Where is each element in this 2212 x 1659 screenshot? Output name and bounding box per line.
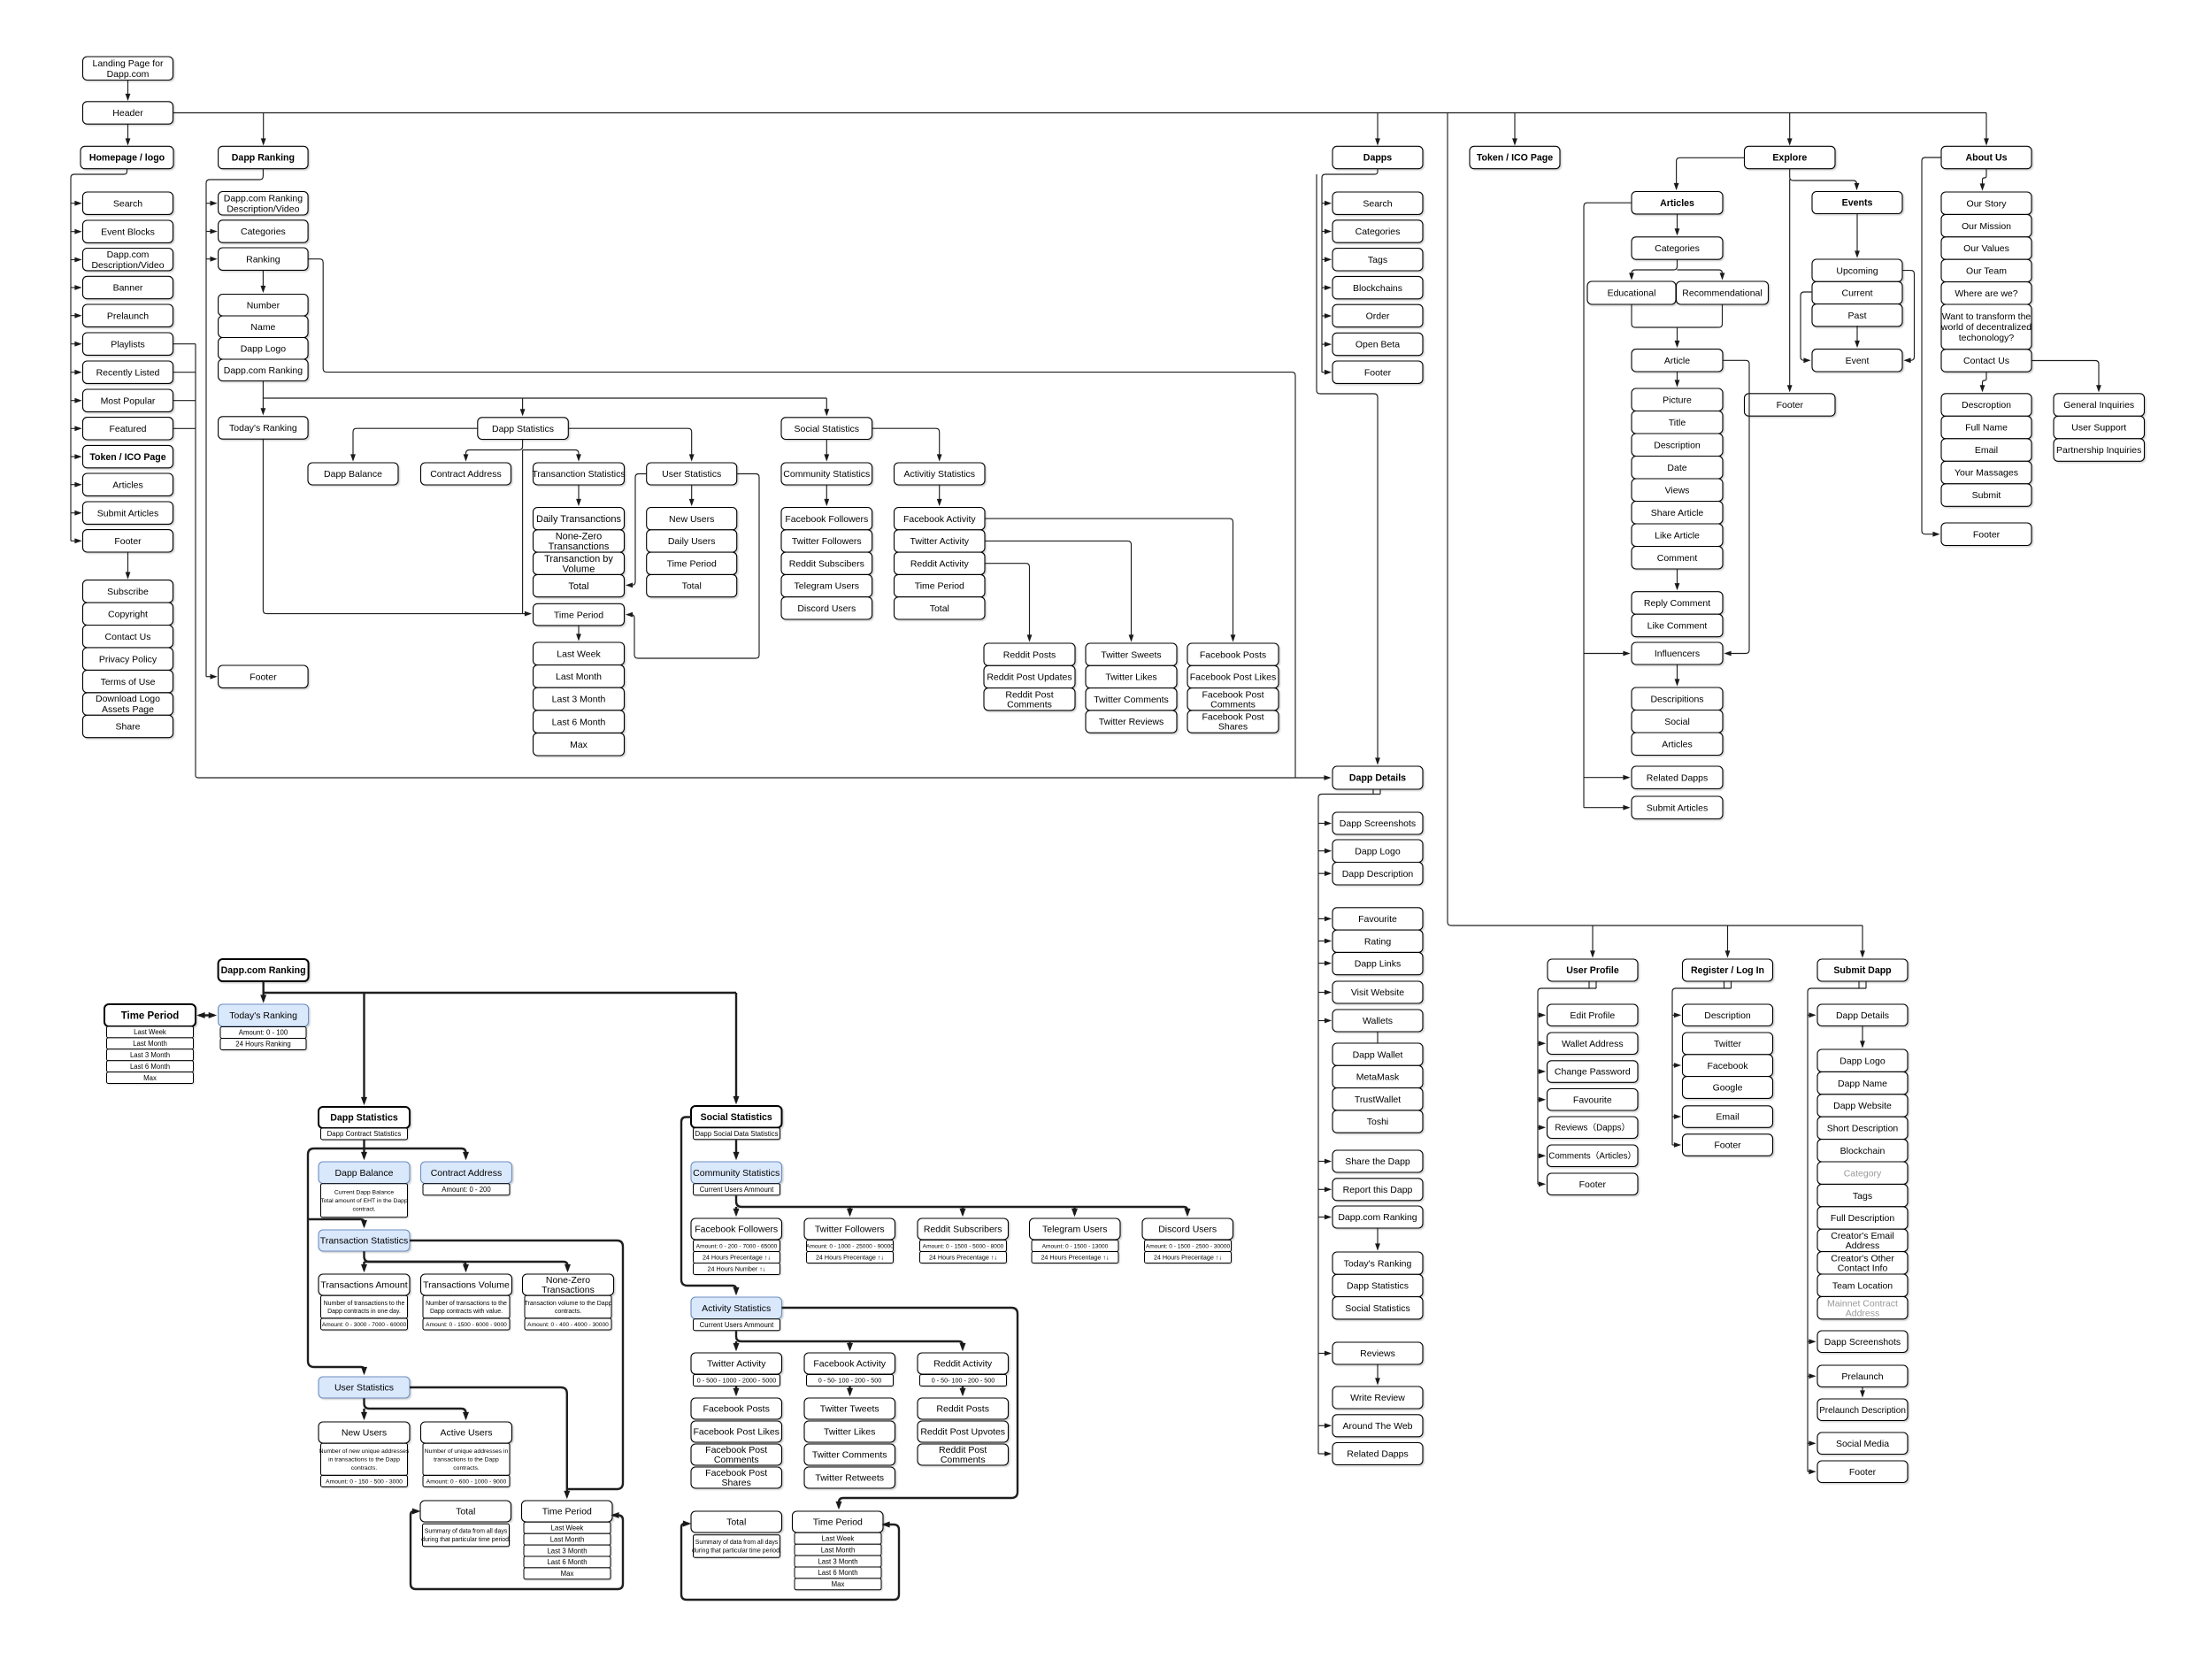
wire: community fan drop x960.5 [849,1207,850,1215]
node: Footer (user profile) [1548,1173,1639,1195]
svg-text:Social Statistics: Social Statistics [795,424,860,434]
node: Activity Statistics (detail) [691,1297,782,1319]
wire: article to picture [1677,372,1678,385]
svg-text:About Us: About Us [1965,153,2007,164]
strip: Amount: 0 - 400 - 4000 - 30000 [525,1318,611,1330]
svg-text:Rating: Rating [1364,936,1392,947]
wire: ranking child arrow y229.7 [206,203,216,204]
node: Recommendational [1677,281,1769,304]
node: Around The Web [1333,1415,1423,1437]
node: Time Period (detail left bottom) [522,1501,613,1522]
svg-text:Daily Users: Daily Users [668,536,716,547]
svg-text:Comments（Articles）: Comments（Articles） [1548,1151,1636,1162]
wire: spine to submit articles [1584,807,1629,809]
node: None-Zero Transanctions [534,530,625,552]
svg-text:Last Week: Last Week [822,1535,855,1543]
node: Download Logo Assets Page [83,693,173,715]
svg-text:Dapp Statistics: Dapp Statistics [492,424,554,434]
strip: 24 Hours Number ↑↓ (Facebook Followers) [694,1263,780,1275]
node: Activitiy Statistics [895,463,986,485]
node: Search [83,192,173,214]
wire: community to facebook followers [826,485,827,504]
wire: homepage spine [71,169,127,541]
svg-text:Dapp Website: Dapp Website [1833,1101,1892,1111]
strip: Max (left bottom) [524,1568,611,1579]
node: Last 3 Month [534,687,625,710]
node: Order (dapps) [1333,304,1423,326]
node: Date (article) [1632,457,1723,480]
wire: dapp details child arrow y1611.3 [1318,1425,1330,1426]
svg-text:Number of transactions to the: Number of transactions to the [324,1301,405,1307]
node: Most Popular [83,389,173,411]
node: Privacy Policy [83,648,173,670]
node: Creator's Other Contact Info (submit) [1817,1252,1908,1274]
wire: twitter activity drop [735,1386,737,1394]
svg-text:Dapp Statistics: Dapp Statistics [330,1113,398,1124]
wire: categories split left [1632,259,1678,278]
node: Facebook Followers [781,508,872,530]
node: Wallet Address (user profile) [1548,1033,1639,1055]
node: Reddit Posts (detail) [918,1398,1009,1419]
strip: Max (right bottom) [795,1578,881,1590]
svg-text:Wallets: Wallets [1363,1016,1393,1026]
node: Twitter Retweets (detail) [804,1467,895,1488]
wire: homepage child arrow y484.3 [71,427,81,429]
svg-text:Reddit Posts: Reddit Posts [936,1404,989,1415]
wire: landing to header [127,81,129,100]
wire: playlists stub [173,343,196,345]
svg-text:Footer: Footer [1973,529,2001,540]
node: TrustWallet [1333,1088,1423,1110]
svg-text:Twitter Comments: Twitter Comments [1094,695,1169,705]
svg-text:Transactions Volume: Transactions Volume [423,1280,510,1291]
node: Prelaunch [83,304,173,326]
svg-text:Current Users Ammount: Current Users Ammount [700,1321,774,1329]
node: Footer [83,530,173,552]
wire: upcoming loop [1902,271,1915,361]
wire: aboutus to our story [1983,169,1987,189]
wire: drop submit dapp [1862,926,1863,956]
svg-text:Blockchains: Blockchains [1353,283,1402,294]
node: Article [1632,349,1723,372]
node: Time Period (activity) [895,574,986,596]
node: Upcoming (events) [1812,259,1902,281]
wire: dapp stats detail to balance [363,1140,365,1157]
svg-text:24 Hours Precentage ↑↓: 24 Hours Precentage ↑↓ [816,1254,884,1262]
wire: dapp details child arrow y1063.5 [1318,941,1330,942]
svg-text:Today's Ranking: Today's Ranking [229,423,297,434]
svg-text:Last Month: Last Month [550,1535,585,1543]
node: Dapp.com Ranking Description/Video [219,192,309,216]
wire: categories split right [1678,270,1723,279]
svg-text:Amount: 0 - 200 - 7000 - 65000: Amount: 0 - 200 - 7000 - 65000 [696,1243,778,1249]
node: Dapp Balance (detail) [319,1162,410,1184]
node: Reviews [1333,1342,1423,1364]
wire: userstat left loop to total [627,474,647,586]
node: Share the Dapp [1333,1150,1423,1172]
svg-text:Amount: 0 - 150 - 500 - 3000: Amount: 0 - 150 - 500 - 3000 [326,1479,403,1485]
svg-text:Number of unique addresses in: Number of unique addresses in [425,1448,509,1455]
wire: homepage child arrow y293.5 [71,259,81,261]
strip: total desc left [423,1524,510,1547]
node: Reply Comment [1632,592,1723,615]
svg-text:Amount: 0 - 1500 - 6000 - 9000: Amount: 0 - 1500 - 6000 - 9000 [426,1322,507,1328]
wire: header main rail [173,112,1987,114]
svg-text:Social: Social [1664,717,1690,727]
node: Short Description (submit) [1817,1117,1908,1139]
wire: ranking child arrow y292.7 [206,258,216,260]
wire: reviews to write review [1377,1364,1379,1383]
svg-text:Articles: Articles [1660,198,1694,209]
wire: drop register [1727,926,1729,956]
wire: left U loop [411,1511,623,1589]
node: Category (submit) [1817,1162,1908,1184]
svg-text:Descripitions: Descripitions [1650,694,1703,704]
node: Dapp Details [1333,766,1423,789]
svg-text:Playlists: Playlists [111,339,145,349]
svg-text:Twitter Sweets: Twitter Sweets [1101,649,1161,660]
node: Today's Ranking (details) [1333,1252,1423,1274]
strip: Current Users Ammount [694,1184,780,1195]
wire: dapp stats rail left [308,1148,365,1373]
strip: Last 6 Month [107,1061,194,1072]
svg-text:Categories: Categories [1655,243,1700,254]
node: Dapp Logo (submit) [1817,1049,1908,1071]
wire: fan to new users [363,1409,365,1418]
node: Articles (influencers) [1632,733,1723,756]
node: Twitter Likes (detail) [804,1421,895,1442]
svg-text:Footer: Footer [1579,1179,1607,1190]
svg-text:Facebook Followers: Facebook Followers [695,1225,778,1235]
wire: userstat to new users [691,485,693,504]
svg-text:Twitter Comments: Twitter Comments [812,1450,887,1461]
wire: spine to influencers [1584,653,1629,655]
node: Prelaunch Description [1817,1399,1908,1421]
node: Open Beta (dapps) [1333,333,1423,355]
wire: user profile stub [1588,981,1590,988]
svg-text:Total: Total [930,603,949,614]
wire: drop to about us [1985,113,1987,144]
svg-text:Reddit Subscribers: Reddit Subscribers [924,1225,1002,1235]
wire: facebook activity to facebook posts [985,518,1233,640]
svg-text:Facebook: Facebook [1707,1061,1748,1071]
wire: fan to volume [365,1262,466,1271]
strip: 24 Hours Precentage ↑↓ (Facebook Followers) [694,1252,780,1263]
svg-text:Prelaunch Description: Prelaunch Description [1819,1406,1906,1416]
svg-text:Google: Google [1713,1083,1743,1094]
node: Discord Users [781,597,872,619]
node: Our Story [1941,192,2032,214]
node: Email (contact) [1941,439,2032,462]
node: Facebook Post Shares [1187,710,1279,733]
node: Daily Users (user stats) [647,530,737,552]
node: Header [83,102,173,124]
svg-text:Summary of data from all days: Summary of data from all days [425,1529,508,1535]
wire: user profile child arrow y1147.3 [1538,1014,1544,1016]
svg-text:Reddit Subscibers: Reddit Subscibers [789,558,864,569]
strip: Amount: 0 - 200 - 7000 - 65000 (Facebook Followers) [694,1240,780,1252]
strip: trans volume desc [423,1295,510,1318]
svg-text:Twitter Likes: Twitter Likes [824,1427,875,1438]
svg-text:Footer: Footer [114,536,142,547]
wire: dapp details child arrow y1121.5 [1318,992,1330,994]
node: Share Article (article) [1632,502,1723,525]
svg-text:Total: Total [682,581,702,592]
wire: dapps child arrow y261.5 [1322,231,1330,233]
node: Total (user stats) [647,574,737,596]
node: Favourite (details) [1333,908,1423,930]
strip: Last Month (left bottom) [524,1533,611,1545]
node: Your Massages (contact) [1941,461,2032,484]
strip: 24 Hours Ranking [220,1039,306,1050]
svg-text:Event Blocks: Event Blocks [101,227,155,237]
strip: Amount: 0 - 1500 - 13000 (Telegram Users) [1032,1240,1118,1252]
svg-text:Partnership Inquiries: Partnership Inquiries [2056,445,2141,456]
svg-text:Related Dapps: Related Dapps [1647,772,1708,783]
svg-text:Recommendational: Recommendational [1682,288,1762,299]
node: Last Week [534,642,625,665]
svg-text:Your Massages: Your Massages [1955,468,2018,479]
svg-text:Articles: Articles [1662,739,1692,749]
wire: community fan drop x1088 [962,1207,964,1215]
node: New Users (detail) [319,1422,410,1443]
svg-text:Comments: Comments [1007,699,1052,710]
svg-text:Around The Web: Around The Web [1343,1421,1413,1432]
node: New Users (user stats) [647,508,737,530]
node: Playlists [83,333,173,355]
svg-text:contract.: contract. [352,1207,375,1213]
node: Events [1812,192,1902,214]
svg-text:Share the Dapp: Share the Dapp [1345,1156,1410,1167]
node: Homepage / logo [81,146,173,168]
wire: dappstat to user statistics [568,428,691,459]
node: Dapp Logo (details) [1333,840,1423,863]
svg-text:Transactions Amount: Transactions Amount [320,1280,407,1291]
node: Categories [219,220,309,242]
node: Views (article) [1632,479,1723,502]
node: Name [219,316,309,338]
wire: ranking right to long rail [308,259,1295,778]
node: Dapp Balance [308,463,398,485]
svg-text:Team Location: Team Location [1832,1280,1893,1291]
wire: recently listed stub [173,372,196,373]
node: Submit (contact) [1941,484,2032,507]
svg-text:Reply Comment: Reply Comment [1644,598,1710,609]
node: Contract Address [421,463,511,485]
svg-text:Today's Ranking: Today's Ranking [229,1010,297,1021]
wire: past to event [1856,326,1858,346]
node: Dapp Statistics (details) [1333,1274,1423,1296]
node: Total [534,574,625,596]
svg-text:User Statistics: User Statistics [662,469,721,480]
node: Twitter Reviews [1086,710,1177,733]
wire: homepage child arrow y388.7 [71,343,81,345]
node: Facebook Posts [1187,643,1279,665]
wire: homepage child arrow y420.7 [71,372,81,373]
svg-text:Dapp Description: Dapp Description [1342,869,1414,879]
svg-text:Last Month: Last Month [821,1546,856,1554]
strip: 24 Hours Precentage ↑↓ (Twitter Followers) [807,1252,894,1263]
svg-text:Volume: Volume [563,564,595,574]
wire: dapp stats detail to contract [365,1148,466,1158]
wire: register stub2 [1731,981,1732,988]
svg-text:Reddit Post Upvotes: Reddit Post Upvotes [920,1427,1005,1438]
svg-text:Category: Category [1844,1168,1882,1179]
svg-text:transactions to the Dapp: transactions to the Dapp [434,1457,499,1463]
node: Title (article) [1632,411,1723,434]
wire: header to homepage [127,124,129,143]
svg-text:Article: Article [1664,356,1690,366]
svg-text:Contract Address: Contract Address [431,1168,503,1179]
node: Dapp.com Ranking (detail title) [219,959,309,981]
node: Influencers [1632,642,1723,664]
wire: dapp details child arrow y1529.5 [1318,1353,1330,1355]
svg-text:Telegram Users: Telegram Users [1042,1225,1108,1235]
svg-text:Submit Articles: Submit Articles [1647,803,1708,813]
node: About Us [1941,146,2032,168]
strip: Last 3 Month (left bottom) [524,1545,611,1556]
wire: drop user profile [1592,926,1594,956]
node: Dapps [1333,146,1423,168]
svg-text:TrustWallet: TrustWallet [1355,1094,1401,1105]
node: Dapp Ranking [219,146,309,168]
node: Subscribe [83,580,173,603]
svg-text:Terms of Use: Terms of Use [101,677,156,687]
svg-text:Like Comment: Like Comment [1647,621,1708,632]
node: Reddit Post Upvotes (detail) [918,1421,1009,1442]
svg-text:Contract Address: Contract Address [430,469,502,480]
svg-text:contracts.: contracts. [351,1465,378,1471]
svg-text:during that particular time pe: during that particular time period. [692,1548,781,1555]
svg-text:Amount: 0 - 1000 - 25000 - 900: Amount: 0 - 1000 - 25000 - 90000 [806,1243,894,1249]
svg-text:Dapp.com Ranking: Dapp.com Ranking [224,365,303,376]
wire: drop to explore [1789,113,1791,144]
strip: Amount: 0 - 3000 - 7000 - 60000 [321,1318,408,1330]
node: Current (events) [1812,281,1902,303]
wire: submit stub2 [1865,981,1867,988]
svg-text:Max: Max [143,1074,157,1082]
wire: dappstat to transanction [523,450,579,460]
svg-text:24 Hours Precentage ↑↓: 24 Hours Precentage ↑↓ [703,1254,771,1262]
wire: dapps wrap to dapp details [1317,174,1378,764]
svg-text:Comments: Comments [1210,699,1256,710]
svg-text:Current Users Ammount: Current Users Ammount [700,1186,774,1194]
svg-text:Upcoming: Upcoming [1836,265,1878,276]
wire: drop to dapp ranking [263,113,265,144]
svg-text:Social Statistics: Social Statistics [701,1112,772,1123]
node: Reddit Post Comments (detail) [918,1444,1009,1465]
svg-text:Amount: 0 - 400 - 4000 - 30000: Amount: 0 - 400 - 4000 - 30000 [527,1322,609,1328]
wire: submit spine [1808,988,1866,1471]
wire: contactus to descroption [1983,372,1987,390]
strip: Amount: 0 - 1500 - 5000 - 8000 (Reddit Subscribers) [920,1240,1007,1252]
node: Reddit Activity (detail) [918,1353,1009,1374]
wire: community fan [736,1195,1187,1214]
node: Event Blocks [83,220,173,242]
node: Facebook (register) [1683,1055,1773,1077]
wire: social to community [826,440,827,460]
strip: 24 Hours Precentage ↑↓ (Telegram Users) [1032,1252,1118,1263]
node: Telegram Users (detail) [1030,1218,1121,1240]
svg-text:Descroption: Descroption [1962,400,2011,411]
svg-text:0 - 50- 100 - 200 - 500: 0 - 50- 100 - 200 - 500 [818,1377,882,1385]
svg-text:Active Users: Active Users [441,1428,493,1439]
node: Change Password (user profile) [1548,1061,1639,1083]
node: Write Review [1333,1386,1423,1409]
wire: register stub [1724,981,1725,988]
svg-text:Last Month: Last Month [556,672,602,682]
svg-text:Current: Current [1841,288,1872,299]
svg-text:Register / Log In: Register / Log In [1691,965,1764,976]
wire: user stats right to time period [410,1387,567,1497]
svg-text:Toshi: Toshi [1367,1117,1389,1127]
svg-text:Description/Video: Description/Video [91,260,164,271]
svg-text:Our Mission: Our Mission [1962,221,2011,232]
node: Explore [1745,146,1836,168]
strip: Last 6 Month (left bottom) [524,1556,611,1568]
svg-text:Total amount of EHT in the Dap: Total amount of EHT in the Dapp [320,1198,408,1204]
svg-text:None-Zero: None-Zero [556,532,603,542]
node: Dapp.com Ranking (details) [1333,1206,1423,1228]
node: Partnership Inquiries [2054,439,2145,462]
svg-text:Dapp.com: Dapp.com [107,250,150,260]
svg-text:Download Logo: Download Logo [96,694,160,704]
svg-text:Time Period: Time Period [554,610,603,620]
svg-text:Most Popular: Most Popular [101,396,156,406]
svg-text:Facebook Posts: Facebook Posts [703,1404,770,1415]
wire: dapp details child arrow y1643 [1318,1453,1330,1455]
node: Dapp Screenshots [1333,812,1423,834]
node: Twitter Followers [781,530,872,552]
wire: homepage child arrow y356.7 [71,315,81,317]
wire: drop to social statistics [826,398,827,414]
strip: Last 3 Month [107,1049,194,1061]
node: Dapp Statistics (detail) [319,1107,410,1128]
svg-text:Reddit Post Updates: Reddit Post Updates [987,672,1071,683]
svg-text:Amount: 0 - 1500 - 13000: Amount: 0 - 1500 - 13000 [1042,1243,1109,1249]
node: Reddit Activity (activity) [895,552,986,574]
node: Dapp Wallet [1333,1043,1423,1065]
strip: Current Users Ammount (activity) [694,1319,780,1331]
wire: user profile child arrow y1306.3 [1538,1155,1544,1156]
node: Articles (explore) [1632,192,1723,214]
node: Transactions Amount [319,1274,410,1295]
wire: dapps child arrow y357 [1322,315,1330,317]
node: Dapp.com Description/Video [83,249,173,271]
svg-text:Transanction by: Transanction by [544,554,613,565]
svg-text:Total: Total [568,581,588,592]
wire: social detail to community [735,1140,737,1157]
wire: featured stub [173,427,196,429]
node: Last Month [534,665,625,688]
svg-text:Dapp.com Ranking: Dapp.com Ranking [221,965,306,976]
node: Prelaunch (submit) [1817,1365,1908,1387]
node: Facebook Post Likes [1187,665,1279,687]
svg-text:Reddit Activity: Reddit Activity [910,558,970,569]
svg-text:Activitiy Statistics: Activitiy Statistics [904,469,976,480]
wire: rail to transaction stats [308,1219,365,1226]
wire: right U loop [681,1524,899,1600]
wire: dappcomranking to todays [262,381,264,414]
wire: timeperiod todays double arrow [199,1014,214,1016]
strip: Amount: 0 - 1500 - 6000 - 9000 [423,1318,510,1330]
svg-text:Last 3 Month: Last 3 Month [818,1557,857,1565]
node: Time Period (user stats) [647,552,737,574]
wire: todays ranking down to time period [263,439,530,613]
node: Descroption (contact) [1941,394,2032,417]
node: User Support [2054,416,2145,439]
wire: facebook activity drop [849,1386,850,1394]
